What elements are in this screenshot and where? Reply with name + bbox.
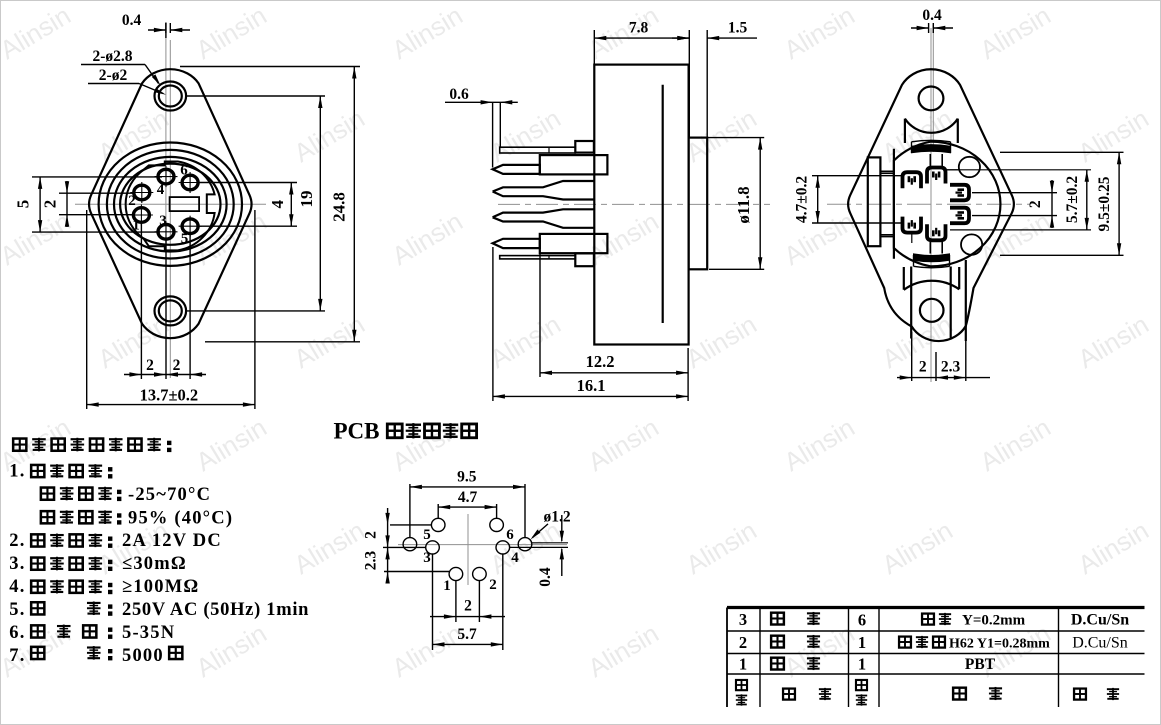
svg-text:D.Cu/Sn: D.Cu/Sn [1071, 612, 1129, 629]
dim 9.5 right view [1000, 151, 1124, 153]
centerline vertical [169, 40, 171, 378]
small circle lower right [961, 234, 982, 254]
dim 16.1 bottom [492, 247, 494, 401]
pin 3 [158, 225, 174, 240]
svg-text:5-35N: 5-35N [122, 623, 175, 643]
svg-text:Alinsin: Alinsin [0, 0, 76, 65]
svg-text:2: 2 [489, 577, 497, 593]
svg-text:1: 1 [858, 633, 866, 652]
svg-text:1.5: 1.5 [728, 20, 748, 37]
bottom mounting hole outer [155, 296, 187, 325]
pin D [493, 239, 540, 248]
top pin entry box [575, 141, 594, 153]
svg-text:2-ø2: 2-ø2 [99, 67, 128, 84]
center key slot rectangle [170, 197, 200, 211]
svg-text:Alinsin: Alinsin [387, 0, 468, 65]
rear body circle [894, 142, 1001, 267]
contact 2 left upper [903, 172, 922, 188]
svg-text:12.2: 12.2 [586, 352, 615, 371]
right top mounting hole [919, 87, 944, 111]
bottom boss side lines [910, 267, 912, 339]
pcb hole right o1.2 [518, 538, 532, 551]
svg-text:2: 2 [919, 359, 927, 376]
svg-text:2: 2 [363, 531, 380, 539]
svg-text:1.: 1. [9, 462, 25, 482]
svg-text:Alinsin: Alinsin [975, 0, 1056, 65]
svg-text:3: 3 [159, 213, 167, 229]
pin 6 [182, 175, 198, 190]
svg-text:0.4: 0.4 [922, 7, 942, 24]
svg-text:Alinsin: Alinsin [387, 206, 468, 271]
svg-text:Alinsin: Alinsin [779, 206, 860, 271]
svg-text:ø11.8: ø11.8 [734, 186, 753, 223]
svg-text:Alinsin: Alinsin [975, 412, 1056, 477]
pcb dim 2 bottom [430, 616, 505, 618]
svg-text:250V AC (50Hz) 1min: 250V AC (50Hz) 1min [122, 600, 309, 620]
svg-text:Alinsin: Alinsin [485, 309, 566, 374]
svg-text:2: 2 [464, 598, 472, 615]
small circle upper right [959, 157, 980, 177]
pcb dim 2.3 left [384, 571, 449, 573]
svg-text:Alinsin: Alinsin [289, 103, 370, 168]
svg-text:2.: 2. [9, 531, 25, 551]
svg-text:Alinsin: Alinsin [191, 412, 272, 477]
centerline vertical right view [930, 28, 932, 382]
centerline horizontal middle [498, 203, 770, 205]
svg-text:4.: 4. [9, 577, 25, 597]
bottom mounting hole inner [159, 300, 182, 321]
svg-text:2: 2 [41, 200, 60, 209]
svg-text:Alinsin: Alinsin [779, 0, 860, 65]
svg-text:Y=0.2mm: Y=0.2mm [962, 613, 1026, 629]
dim 13.7 bottom [86, 210, 88, 409]
svg-text:4: 4 [157, 182, 165, 198]
top mounting hole 2-o2.8 outer [155, 82, 187, 111]
svg-text:24.8: 24.8 [330, 192, 349, 222]
pcb hole 2 [473, 567, 487, 580]
dim 2 2 bottom [124, 374, 206, 376]
svg-text:Alinsin: Alinsin [1073, 309, 1154, 374]
connector circles [99, 143, 242, 266]
contact 6 bottom center [927, 224, 946, 240]
svg-text:1: 1 [739, 655, 747, 674]
svg-text:Alinsin: Alinsin [0, 206, 76, 271]
svg-text:2: 2 [173, 357, 181, 374]
svg-text:Alinsin: Alinsin [1073, 515, 1154, 580]
svg-text:5.: 5. [9, 600, 25, 620]
centerline offset line right view [932, 25, 934, 152]
svg-text:13.7±0.2: 13.7±0.2 [140, 386, 199, 405]
svg-text:Alinsin: Alinsin [681, 309, 762, 374]
body rectangle [594, 65, 688, 345]
line1 main title chars [13, 438, 27, 451]
svg-text:ø1.2: ø1.2 [543, 509, 570, 526]
svg-text:≤30mΩ: ≤30mΩ [122, 554, 187, 574]
dim 24.8 far right [180, 66, 360, 68]
top bent pin riser lines [492, 103, 494, 168]
table header row: no./name/qty/material/treatment [736, 680, 747, 691]
pcb centerline horizontal [398, 544, 567, 546]
svg-text:2: 2 [128, 193, 136, 209]
svg-text:6: 6 [506, 527, 514, 543]
svg-text:2: 2 [739, 633, 747, 652]
pcb hole 6 [490, 518, 504, 531]
svg-text:6: 6 [858, 611, 866, 630]
svg-text:3: 3 [423, 550, 431, 566]
svg-text:H62 Y1=0.28mm: H62 Y1=0.28mm [949, 637, 1050, 652]
svg-text:9.5: 9.5 [457, 469, 477, 486]
svg-text:PBT: PBT [965, 656, 996, 673]
svg-text:Alinsin: Alinsin [779, 412, 860, 477]
svg-text:3.: 3. [9, 554, 25, 574]
pin 2 [134, 185, 150, 200]
pcb hole 1 [449, 567, 463, 580]
contact 1 top center [927, 168, 946, 184]
contact 4 right lower [950, 208, 969, 224]
svg-text:2: 2 [146, 357, 154, 374]
svg-text:16.1: 16.1 [577, 376, 606, 395]
dim 4.7 left of right view [812, 175, 904, 177]
svg-text:≥100MΩ: ≥100MΩ [122, 577, 199, 597]
svg-text:5.7±0.2: 5.7±0.2 [1064, 176, 1081, 224]
svg-text:Alinsin: Alinsin [387, 412, 468, 477]
dims 2 and 2.3 bottom of right view [911, 332, 913, 381]
svg-text:19: 19 [297, 191, 316, 208]
svg-text:Alinsin: Alinsin [681, 515, 762, 580]
bottom pin entry box [575, 253, 594, 266]
dim 2 left [59, 192, 134, 194]
pin D holder block [540, 234, 608, 253]
pcb dim 0.4 right [532, 542, 568, 544]
pcb dim 5.7 bottom [433, 643, 503, 645]
svg-text:D.Cu/Sn: D.Cu/Sn [1072, 635, 1128, 652]
pcb hole left [403, 538, 417, 551]
svg-text:0.6: 0.6 [449, 86, 469, 103]
svg-text:Alinsin: Alinsin [485, 103, 566, 168]
pin column extension lines down [140, 222, 142, 379]
bottom scallop cut [904, 267, 959, 290]
svg-text:-25~70°C: -25~70°C [128, 485, 211, 505]
bottom thin pin [500, 256, 576, 259]
svg-text:5.7: 5.7 [457, 626, 477, 643]
pcb dim 2 left [390, 524, 431, 526]
svg-text:Alinsin: Alinsin [583, 412, 664, 477]
svg-text:5: 5 [14, 200, 33, 209]
svg-text:4.7±0.2: 4.7±0.2 [794, 176, 811, 224]
svg-text:4: 4 [511, 550, 519, 566]
dim 1.5 top [672, 37, 689, 39]
svg-text:PCB: PCB [334, 419, 380, 444]
svg-text:Alinsin: Alinsin [289, 515, 370, 580]
svg-text:Alinsin: Alinsin [191, 0, 272, 65]
dim 2 right view [972, 192, 1057, 194]
contact 5 left lower [903, 217, 922, 233]
svg-text:2A 12V DC: 2A 12V DC [122, 531, 222, 551]
dim 5 left [32, 176, 162, 178]
front barrel rectangle [689, 138, 708, 270]
flange outline [89, 69, 252, 338]
body inner line [662, 85, 664, 323]
pin C [493, 209, 594, 228]
material table [727, 606, 1145, 609]
svg-text:Alinsin: Alinsin [191, 618, 272, 683]
line4 [41, 511, 55, 524]
pcb hole 5 [431, 518, 445, 531]
right bottom mounting hole [920, 299, 944, 322]
bottom latch bar [914, 254, 950, 262]
dim 5.7 right view [947, 169, 1091, 171]
svg-text:2.3: 2.3 [363, 551, 380, 571]
right flange outline [848, 69, 1014, 341]
centerline horizontal right view [827, 203, 1030, 205]
svg-text:6.: 6. [9, 623, 25, 643]
svg-text:2.3: 2.3 [941, 359, 961, 376]
svg-text:0.4: 0.4 [537, 567, 554, 587]
centerline vertical offset 0.4 [165, 31, 167, 240]
contact 3 right upper [950, 185, 969, 201]
svg-text:0.4: 0.4 [122, 12, 142, 29]
svg-text:5: 5 [423, 527, 431, 543]
svg-text:Alinsin: Alinsin [583, 618, 664, 683]
top thin pin [500, 147, 576, 153]
pcb centerline vertical [467, 514, 469, 585]
svg-text:Alinsin: Alinsin [1073, 103, 1154, 168]
pcb hole 4 [496, 541, 510, 554]
dim o11.8 right [692, 137, 764, 139]
dim 4 right [198, 182, 297, 184]
svg-text:6: 6 [180, 162, 188, 178]
line3 [41, 487, 55, 500]
dim 19 right [187, 95, 325, 97]
dim 7.8 top [593, 30, 595, 65]
svg-text:7.: 7. [9, 646, 25, 666]
svg-text:4.7: 4.7 [458, 489, 478, 506]
svg-text:2: 2 [1027, 200, 1044, 208]
svg-text:7.8: 7.8 [629, 20, 649, 37]
pin B [493, 181, 594, 200]
shield keyway outline [126, 162, 215, 251]
pcb leader lines down [432, 554, 434, 650]
pin A holder block [540, 155, 608, 174]
svg-text:2-ø2.8: 2-ø2.8 [92, 48, 132, 65]
pcb dim 9.5 [409, 484, 411, 538]
pin 4 [158, 169, 174, 184]
svg-text:1: 1 [132, 217, 140, 233]
pin A [493, 165, 540, 174]
svg-text:95% (40°C): 95% (40°C) [128, 509, 233, 529]
centerline horizontal [75, 203, 266, 205]
top scallop cut [905, 119, 958, 143]
top mounting hole 2-o2 inner [159, 86, 182, 107]
dim 12.2 bottom [539, 250, 541, 377]
svg-text:1: 1 [443, 578, 451, 594]
svg-text:9.5±0.25: 9.5±0.25 [1096, 176, 1113, 231]
svg-text:3: 3 [739, 610, 747, 629]
pcb dim 4.7 [437, 504, 439, 518]
pin 1 [133, 208, 149, 223]
top latch bar [912, 145, 951, 153]
svg-text:4: 4 [268, 200, 287, 209]
svg-text:Alinsin: Alinsin [681, 103, 762, 168]
svg-text:5: 5 [181, 231, 189, 247]
svg-text:Alinsin: Alinsin [387, 618, 468, 683]
pcb hole 3 [426, 541, 440, 554]
left mounting tab [868, 157, 881, 246]
svg-text:1: 1 [858, 655, 866, 674]
svg-text:5000: 5000 [122, 646, 164, 666]
pin 5 [182, 219, 198, 234]
svg-text:Alinsin: Alinsin [877, 515, 958, 580]
